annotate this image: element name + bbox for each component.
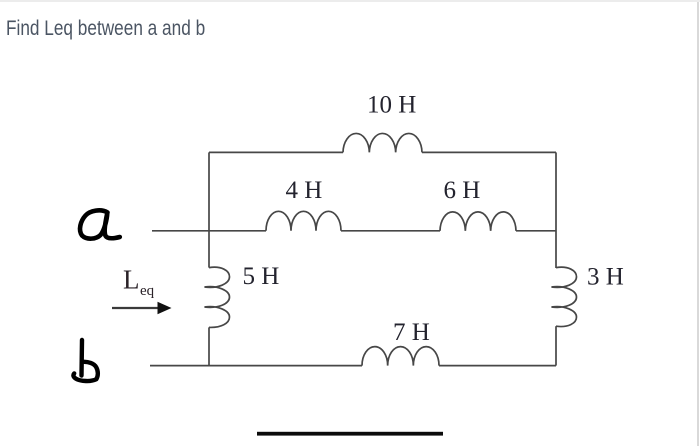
wire middle to right — [516, 230, 556, 232]
wire bottom right segment — [439, 365, 556, 367]
inductor L6 7 H — [362, 347, 439, 366]
wire top left segment — [209, 151, 343, 153]
bottom answer line — [257, 432, 443, 436]
svg-text:10 H: 10 H — [367, 92, 416, 119]
inductor L1 10 H — [343, 133, 422, 152]
wire middle segment — [341, 230, 440, 232]
wire left vertical lower — [208, 327, 210, 365]
svg-text:7 H: 7 H — [393, 319, 430, 346]
svg-text:6 H: 6 H — [444, 177, 481, 204]
svg-text:5 H: 5 H — [243, 263, 280, 290]
node a handwritten — [80, 210, 120, 238]
svg-text:4 H: 4 H — [286, 177, 323, 204]
top border — [0, 0, 700, 2]
arrow Leq direction — [112, 302, 172, 315]
wire bottom — [150, 365, 362, 367]
title text — [6, 17, 205, 41]
inductor L4 5 H — [205, 267, 230, 327]
svg-text:eq: eq — [140, 283, 155, 299]
inductor L2 4 H — [266, 211, 341, 231]
svg-text:3 H: 3 H — [587, 264, 624, 291]
wire left vertical upper — [208, 152, 210, 267]
wire right vertical lower — [555, 326, 557, 365]
inductor L5 3 H — [552, 267, 577, 326]
svg-text:L: L — [123, 265, 140, 295]
inductor L3 6 H — [440, 212, 516, 231]
wire node a horizontal — [152, 230, 266, 232]
right border — [697, 2, 699, 446]
wire top right segment — [422, 151, 556, 153]
node b handwritten — [73, 340, 97, 381]
wire right vertical upper — [555, 152, 557, 268]
